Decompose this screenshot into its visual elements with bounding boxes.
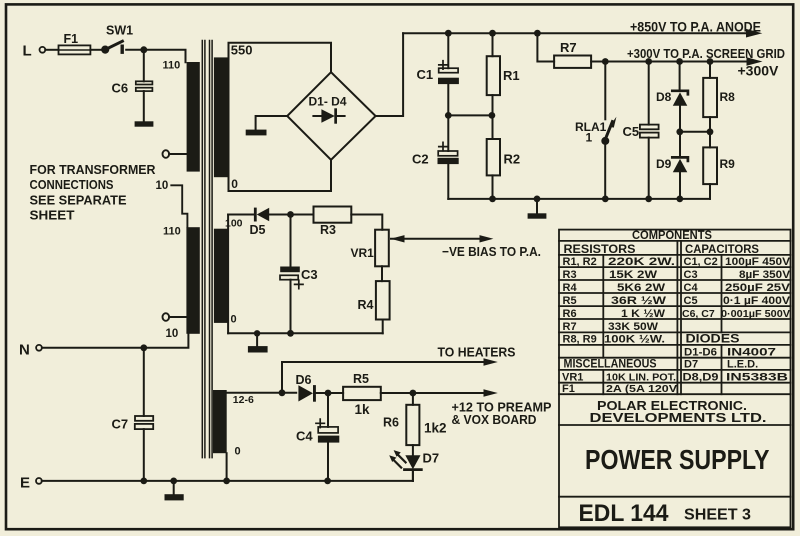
svg-text:R2: R2 [504, 152, 521, 167]
wire D8/R8 junction link [680, 131, 710, 133]
wire 550 winding to bridge (top) [229, 43, 332, 191]
svg-text:L.E.D.: L.E.D. [727, 359, 758, 371]
capacitor C6 [143, 50, 145, 82]
svg-text:C6: C6 [112, 81, 129, 96]
transformer secondary 12.6V winding [213, 390, 227, 453]
svg-text:SEE SEPARATE: SEE SEPARATE [30, 194, 127, 208]
wire 12.6 winding bottom to E rail [226, 453, 228, 481]
svg-text:R3: R3 [320, 223, 336, 237]
svg-text:C1: C1 [417, 67, 434, 82]
svg-text:C5: C5 [684, 295, 698, 307]
svg-text:10: 10 [166, 328, 179, 340]
svg-text:1k2: 1k2 [424, 421, 447, 436]
bridge diode symbol [313, 115, 344, 117]
capacitor C4 [327, 393, 329, 427]
svg-text:R1: R1 [503, 68, 520, 83]
ground on bias rail [256, 333, 258, 346]
resistor R1 [492, 33, 494, 56]
svg-text:15K 2W: 15K 2W [609, 269, 658, 281]
svg-text:L: L [23, 43, 32, 60]
wire 550 winding to bridge (bottom) [229, 160, 332, 191]
svg-text:1k: 1k [355, 402, 371, 417]
svg-text:36R ½W: 36R ½W [611, 295, 667, 307]
svg-text:EDL 144: EDL 144 [579, 500, 670, 527]
capacitor C3 [290, 215, 292, 267]
LED D7 [412, 445, 414, 455]
transformer secondary 550V winding [214, 57, 228, 177]
svg-text:CONNECTIONS: CONNECTIONS [30, 178, 114, 192]
svg-text:VR1: VR1 [351, 246, 375, 260]
svg-text:1: 1 [586, 131, 593, 145]
svg-text:D1-D6: D1-D6 [684, 346, 717, 358]
svg-text:CAPACITORS: CAPACITORS [685, 242, 759, 256]
capacitor C2 [447, 115, 449, 151]
svg-text:D7: D7 [423, 451, 440, 466]
svg-text:R9: R9 [720, 157, 736, 171]
svg-text:D5: D5 [250, 223, 266, 237]
wire +300V rail [591, 61, 748, 63]
svg-text:C3: C3 [684, 269, 698, 281]
wire bias ground rail [228, 332, 383, 334]
svg-text:C2: C2 [412, 152, 429, 167]
transformer T1 primary upper winding [187, 62, 200, 172]
wire L to F1 [45, 49, 58, 51]
svg-text:DEVELOPMENTS LTD.: DEVELOPMENTS LTD. [590, 410, 767, 425]
svg-text:SHEET: SHEET [30, 209, 75, 223]
svg-text:D8: D8 [656, 90, 672, 104]
svg-text:R7: R7 [560, 40, 577, 55]
junction N/C7 [140, 344, 147, 351]
wire R5 to +12 output [381, 392, 485, 394]
svg-text:100K ½W.: 100K ½W. [604, 334, 665, 346]
components table frame [559, 230, 791, 528]
svg-text:IN5383B: IN5383B [726, 372, 788, 384]
ground below C6 [135, 121, 154, 126]
wire HT ground rail [448, 198, 710, 200]
svg-text:550: 550 [231, 43, 253, 58]
LED D7 emission arrows [394, 455, 406, 467]
capacitor C7 [143, 348, 145, 416]
wire SW1 to transformer primary top [126, 50, 185, 62]
resistor R7 [537, 33, 554, 61]
svg-text:0: 0 [231, 314, 237, 326]
capacitor C5 [648, 62, 650, 125]
svg-text:DIODES: DIODES [686, 332, 740, 346]
svg-text:POWER SUPPLY: POWER SUPPLY [585, 444, 770, 475]
svg-text:N: N [19, 342, 30, 359]
svg-text:SW1: SW1 [106, 24, 133, 38]
junction L/C6 [140, 46, 147, 53]
svg-text:E: E [20, 475, 30, 492]
wire VR1 wiper / bias output [391, 238, 480, 240]
svg-text:& VOX BOARD: & VOX BOARD [452, 412, 537, 427]
svg-text:C1, C2: C1, C2 [684, 256, 718, 268]
terminal E [36, 478, 42, 484]
svg-text:D8,D9: D8,D9 [683, 372, 719, 384]
svg-text:C6, C7: C6, C7 [682, 308, 715, 320]
wire D6 to R5 [315, 392, 343, 394]
bridge rectifier D1-D4 diamond [287, 72, 375, 160]
wire mid rail C1-R1 [448, 114, 492, 116]
resistor R3 [314, 207, 352, 223]
zener diode D9 [679, 132, 681, 157]
svg-text:R7: R7 [563, 321, 577, 333]
svg-text:0: 0 [235, 446, 241, 458]
svg-text:R8: R8 [720, 90, 736, 104]
svg-text:RESISTORS: RESISTORS [564, 242, 636, 256]
resistor R8 [709, 62, 711, 78]
svg-text:C4: C4 [296, 429, 313, 444]
svg-text:0·1 µF 400V: 0·1 µF 400V [723, 295, 791, 307]
junction C1/rail [445, 30, 452, 37]
svg-text:33K 50W: 33K 50W [608, 321, 659, 333]
resistor R2 [492, 115, 494, 139]
svg-text:12-6: 12-6 [233, 394, 254, 406]
transformer T1 primary lower winding [186, 227, 199, 334]
svg-text:R8, R9: R8, R9 [563, 334, 597, 346]
svg-text:0·001µF 500V: 0·001µF 500V [721, 308, 790, 320]
junction R1/rail [489, 30, 496, 37]
diode D5 [228, 214, 254, 216]
svg-text:VR1: VR1 [562, 372, 583, 384]
svg-text:F1: F1 [64, 32, 79, 46]
capacitor C1 [447, 33, 449, 68]
svg-text:R5: R5 [353, 372, 369, 386]
wire 100 winding edge [227, 215, 229, 334]
svg-text:+300V: +300V [738, 63, 780, 79]
svg-text:F1: F1 [562, 383, 575, 395]
svg-text:C7: C7 [112, 417, 129, 432]
svg-text:+850V TO P.A. ANODE: +850V TO P.A. ANODE [630, 18, 761, 34]
svg-text:R5: R5 [563, 295, 577, 307]
junction D5/R3/C3 [287, 211, 294, 218]
svg-text:250µF 25V: 250µF 25V [725, 282, 791, 294]
ground on E rail [173, 481, 175, 494]
svg-text:FOR TRANSFORMER: FOR TRANSFORMER [30, 163, 156, 177]
wire VR1 to R4 [381, 266, 383, 281]
svg-text:R6: R6 [383, 415, 399, 429]
svg-text:5K6 2W: 5K6 2W [617, 282, 666, 294]
svg-text:10: 10 [156, 180, 169, 192]
zener diode D8 [679, 62, 681, 91]
svg-text:R4: R4 [563, 282, 578, 294]
svg-text:100µF 450V: 100µF 450V [725, 256, 791, 268]
svg-text:C4: C4 [684, 282, 699, 294]
wire D7 to E rail [412, 470, 414, 481]
svg-text:C3: C3 [301, 267, 318, 282]
potentiometer VR1 [375, 230, 389, 267]
svg-text:D9: D9 [656, 157, 672, 171]
svg-text:D6: D6 [296, 373, 312, 387]
svg-text:+300V TO P.A. SCREEN GRID: +300V TO P.A. SCREEN GRID [627, 46, 785, 61]
switch SW1 [101, 46, 109, 54]
resistor R5 [343, 387, 381, 400]
svg-text:110: 110 [163, 225, 181, 237]
wire bridge output to +850V rail [376, 33, 404, 116]
svg-text:8µF 350V: 8µF 350V [739, 269, 791, 281]
terminal L [40, 47, 46, 53]
svg-text:10K LIN. POT.: 10K LIN. POT. [606, 372, 676, 384]
svg-text:110: 110 [163, 59, 181, 71]
svg-text:1 K ½W: 1 K ½W [621, 308, 666, 320]
svg-text:IN4007: IN4007 [727, 346, 776, 358]
svg-text:−VE BIAS TO P.A.: −VE BIAS TO P.A. [442, 244, 541, 259]
wire N to transformer [42, 334, 189, 348]
ground on HT rail [536, 199, 538, 213]
resistor R4 [376, 281, 390, 319]
resistor R6 [412, 393, 414, 405]
wire 12.6V winding to D6 [227, 392, 297, 394]
svg-text:COMPONENTS: COMPONENTS [632, 228, 712, 242]
svg-text:C5: C5 [623, 124, 640, 139]
tap 0 lower primary [163, 313, 170, 321]
svg-text:D1- D4: D1- D4 [309, 95, 347, 109]
svg-text:R1, R2: R1, R2 [563, 256, 597, 268]
wire F1 to SW1 [90, 49, 100, 51]
wire +850V rail [403, 32, 748, 34]
svg-text:2A (5A 120V: 2A (5A 120V [606, 383, 677, 395]
relay contact RLA1 [604, 62, 606, 120]
svg-text:R4: R4 [358, 298, 374, 312]
transformer core [202, 41, 212, 458]
svg-text:MISCELLANEOUS: MISCELLANEOUS [564, 359, 657, 371]
ground at bridge [256, 116, 288, 130]
svg-text:D7: D7 [684, 359, 698, 371]
svg-text:220K 2W.: 220K 2W. [608, 256, 675, 268]
svg-text:R6: R6 [563, 308, 577, 320]
resistor R9 [709, 132, 711, 148]
fuse F1 [59, 45, 91, 54]
svg-text:TO HEATERS: TO HEATERS [438, 344, 516, 359]
svg-text:R3: R3 [563, 269, 577, 281]
terminal N [36, 345, 42, 351]
tap 0 upper primary [163, 150, 170, 158]
svg-text:0: 0 [231, 177, 238, 191]
junction R7/rail [534, 30, 541, 37]
svg-text:SHEET 3: SHEET 3 [684, 506, 751, 523]
wire E rail [42, 480, 413, 482]
diode D6 [298, 385, 313, 401]
transformer secondary 100V winding [214, 229, 228, 323]
wire heater feed [282, 362, 485, 393]
wire R3 to VR1 [351, 215, 382, 230]
